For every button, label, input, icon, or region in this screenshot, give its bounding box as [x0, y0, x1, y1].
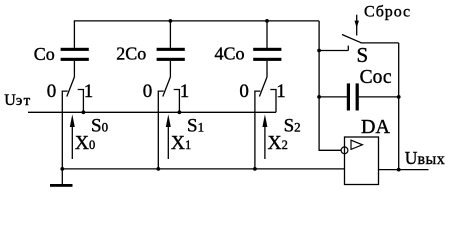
svg-text:S2: S2 [284, 115, 301, 136]
switch S1 blade [163, 77, 171, 97]
node: S0 contact 1 / Uэт bus [82, 110, 86, 114]
svg-text:Uэт: Uэт [4, 92, 31, 109]
svg-text:1: 1 [180, 81, 190, 102]
svg-text:2Co: 2Co [116, 44, 146, 64]
svg-text:4Co: 4Co [215, 43, 245, 63]
switch S2 contact 0 and wire to ground bus [255, 91, 260, 169]
node: junction output / right bus [397, 168, 401, 172]
node: S2 contact 0 / ground bus [253, 167, 257, 171]
switch S1 [143, 77, 189, 171]
wire: ground bus to op-amp non-inverting input [62, 168, 344, 170]
svg-text:S1: S1 [187, 115, 204, 136]
wire: Сос to right bus [359, 96, 399, 98]
switch S (reset) [317, 35, 399, 53]
switch S contact tick [347, 46, 349, 51]
control arrow X2 [262, 114, 267, 159]
svg-text:0: 0 [239, 81, 249, 102]
control arrow Сброс (reset) [355, 15, 360, 36]
switch S0 contact 0 and wire to ground bus [62, 91, 67, 169]
wire: left bus to Сос [319, 96, 347, 98]
svg-text:Co: Co [34, 44, 55, 64]
capacitor 4Co [253, 21, 281, 77]
switch S0 [47, 77, 93, 169]
svg-text:0: 0 [47, 81, 57, 102]
svg-text:Uвых: Uвых [405, 148, 445, 168]
capacitor 2Co [157, 21, 185, 77]
switch S2 blade [259, 77, 267, 97]
control arrow X0 [70, 114, 75, 159]
wire: Uэт reference bus [28, 111, 276, 113]
wire: top summing bus [74, 20, 319, 22]
svg-text:S: S [357, 43, 369, 67]
wire: S blade to right bus [361, 42, 399, 44]
capacitor Co [61, 21, 89, 77]
node: junction right bus / Сос wire [397, 95, 401, 99]
switch S2 [239, 77, 285, 171]
node: junction left bus / S wire [317, 49, 321, 53]
svg-text:0: 0 [143, 81, 153, 102]
ground [50, 167, 73, 187]
control arrow X1 [166, 114, 171, 159]
wire: op-amp output [379, 169, 429, 171]
svg-text:DA: DA [361, 116, 390, 138]
switch S2 contact 1 and wire to Uэт bus [270, 90, 276, 113]
wire: left bus to S contact [319, 50, 348, 52]
svg-text:Сос: Сос [360, 67, 392, 88]
node: junction top bus / capacitor 2Co [169, 19, 173, 23]
svg-text:S0: S0 [91, 115, 108, 136]
node: S1 contact 0 / ground bus [156, 167, 160, 171]
switch S blade [342, 35, 361, 43]
wire: left vertical bus down to op-amp inverting input [319, 21, 341, 150]
node: S1 contact 1 / Uэт bus [178, 110, 182, 114]
switch S1 contact 1 and wire to Uэт bus [174, 90, 180, 113]
op-amp DA [341, 137, 378, 185]
switch S0 blade [67, 77, 75, 97]
svg-text:1: 1 [84, 81, 94, 102]
switch S0 contact 1 and wire to Uэт bus [78, 90, 84, 113]
capacitor Сос [317, 83, 400, 110]
node: junction top bus / capacitor 4Co [265, 19, 269, 23]
svg-text:1: 1 [276, 81, 286, 102]
node: junction left bus / Сос wire [317, 95, 321, 99]
wire: right vertical bus (feedback) [398, 43, 400, 170]
svg-text:Сброс: Сброс [364, 4, 411, 21]
switch S1 contact 0 and wire to ground bus [158, 91, 163, 169]
